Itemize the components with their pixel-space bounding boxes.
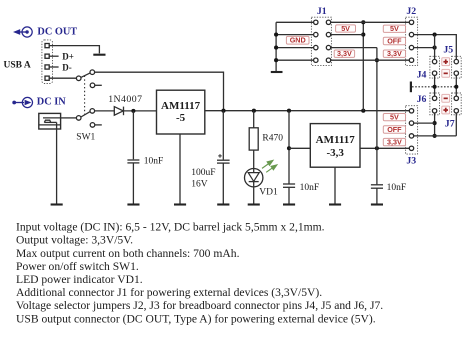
capacitor 100uF 16V bbox=[217, 111, 230, 204]
junction 5V/top bus bbox=[221, 109, 225, 113]
svg-text:Power on/off switch SW1.: Power on/off switch SW1. bbox=[16, 260, 139, 273]
USB pin 2 (D+) bbox=[45, 54, 49, 58]
svg-text:-5: -5 bbox=[176, 112, 186, 124]
ground (J1 bus) bbox=[271, 71, 283, 73]
svg-text:5V: 5V bbox=[390, 24, 399, 33]
wire J5 bottom to rail bbox=[455, 75, 457, 96]
junction J2 pin2 bbox=[433, 33, 437, 37]
wire J6 bottom to J3 pin2 bbox=[434, 113, 436, 136]
wire to U2 input bbox=[289, 147, 310, 149]
connector J2 bbox=[406, 17, 418, 65]
wire 3,3V output bbox=[360, 147, 409, 149]
USB pin 3 (D-) bbox=[45, 65, 49, 69]
svg-text:J2: J2 bbox=[406, 6, 416, 17]
svg-text:5V: 5V bbox=[390, 113, 399, 122]
capacitor 10nF (U2 input) bbox=[283, 184, 295, 204]
junction 3,3V feed row4 bbox=[375, 58, 379, 62]
svg-text:AM1117: AM1117 bbox=[161, 100, 201, 112]
label OFF (J2) bbox=[383, 37, 405, 46]
ground (100uF) bbox=[217, 203, 229, 205]
junction J2 pin3 bbox=[433, 46, 437, 50]
wire jack sleeve to ground bbox=[56, 122, 58, 203]
breadboard ground rail bbox=[411, 82, 457, 93]
svg-text:USB A: USB A bbox=[4, 60, 31, 70]
junction bus row2 bbox=[274, 33, 278, 37]
USB pin 4 bbox=[45, 76, 49, 80]
wire 3,3V feed to J1/J2 bbox=[376, 48, 378, 149]
label OFF (J3) bbox=[383, 125, 405, 134]
svg-text:VD1: VD1 bbox=[259, 188, 278, 198]
junction rail/J5 bbox=[454, 85, 458, 89]
svg-text:10nF: 10nF bbox=[144, 156, 164, 166]
svg-text:J6: J6 bbox=[417, 94, 427, 105]
polarity - (bottom row) bbox=[442, 69, 450, 77]
svg-text:Voltage selector jumpers J2, J: Voltage selector jumpers J2, J3 for brea… bbox=[16, 299, 383, 312]
junction 5V/U2 branch bbox=[287, 109, 291, 113]
description text bbox=[16, 221, 383, 326]
wire switch A to 5V rail (top bus) bbox=[95, 72, 224, 111]
label 5V (J1) bbox=[336, 24, 356, 33]
label GND bbox=[286, 36, 309, 45]
switch gang dotted link bbox=[84, 76, 86, 115]
junction bus row3 bbox=[274, 46, 278, 50]
wire diode to U1 bbox=[124, 110, 157, 112]
svg-text:DC OUT: DC OUT bbox=[37, 27, 77, 38]
wire J2 pin2 to J5 bbox=[414, 35, 457, 60]
svg-text:100uF: 100uF bbox=[191, 168, 215, 178]
wire switch B to diode bbox=[95, 110, 115, 112]
stub D- bbox=[49, 66, 58, 68]
svg-text:GND: GND bbox=[290, 36, 306, 45]
USB pin 1 bbox=[45, 44, 49, 48]
svg-text:D+: D+ bbox=[62, 52, 74, 62]
ground (jack) bbox=[51, 203, 63, 205]
LED VD1 bbox=[245, 169, 263, 204]
junction 3,3V/cap bbox=[375, 146, 379, 150]
svg-text:1N4007: 1N4007 bbox=[108, 94, 142, 105]
wire J3 pin2 bbox=[414, 122, 435, 124]
wire J4 bottom to rail bbox=[434, 75, 436, 96]
wire jack pin to switch bbox=[61, 117, 77, 119]
svg-text:LED power indicator VD1.: LED power indicator VD1. bbox=[16, 273, 143, 286]
DC OUT icon bbox=[13, 27, 32, 37]
regulator U2 AM1117-3,3 bbox=[310, 124, 360, 168]
svg-text:10nF: 10nF bbox=[300, 183, 320, 193]
junction rail/J4 bbox=[433, 85, 437, 89]
DC IN icon bbox=[12, 97, 32, 107]
svg-text:16V: 16V bbox=[191, 179, 208, 189]
ground (mid cap) bbox=[283, 203, 295, 205]
connector J1 bbox=[311, 17, 331, 65]
USB A connector shell bbox=[42, 40, 53, 84]
label 5V (J2) bbox=[383, 24, 405, 33]
junction J3 pin3 link bbox=[433, 134, 437, 138]
U1 ground pin bbox=[179, 134, 181, 204]
svg-text:J7: J7 bbox=[445, 119, 455, 130]
svg-text:J1: J1 bbox=[317, 6, 327, 17]
svg-text:3,3V: 3,3V bbox=[337, 49, 352, 58]
junction 5V/J1 feed bbox=[361, 109, 365, 113]
svg-text:3,3V: 3,3V bbox=[387, 138, 402, 147]
svg-text:Max output current on both cha: Max output current on both channels: 700… bbox=[16, 247, 240, 260]
junction J3 pin2 link bbox=[433, 121, 437, 125]
ground (input cap) bbox=[127, 203, 139, 205]
wires J1 left pins to ground bus bbox=[276, 22, 314, 60]
resistor R470 bbox=[249, 111, 258, 169]
label 3,3V (J1) bbox=[334, 49, 354, 58]
label 3,3V (J3) bbox=[383, 138, 405, 147]
junction 5V feed top bbox=[361, 20, 365, 24]
ground (LED) bbox=[248, 203, 260, 205]
switch SW1 pole A bbox=[76, 70, 101, 88]
polarity + (top row) bbox=[442, 58, 450, 66]
svg-text:DC IN: DC IN bbox=[37, 97, 66, 108]
svg-text:SW1: SW1 bbox=[76, 133, 95, 143]
ground (USB shield) bbox=[93, 54, 105, 56]
switch SW1 pole B bbox=[76, 109, 101, 128]
wire 5V rail bbox=[205, 110, 410, 112]
connector J5 bbox=[452, 56, 462, 78]
junction U2 input bbox=[287, 146, 291, 150]
barrel jack bbox=[39, 113, 61, 129]
wire J2 pin3 bbox=[414, 47, 435, 49]
wire J3 pin3 bbox=[414, 135, 457, 137]
stub D+ bbox=[49, 55, 58, 57]
polarity - (J6 row) bbox=[442, 94, 450, 102]
svg-text:3,3V: 3,3V bbox=[387, 49, 402, 58]
LED light arrows bbox=[262, 160, 277, 172]
ground (U1) bbox=[174, 203, 186, 205]
svg-text:USB output connector (DC OUT,: USB output connector (DC OUT, Type A) fo… bbox=[16, 312, 376, 325]
svg-text:-3,3: -3,3 bbox=[326, 147, 344, 159]
wire J1 row3 bbox=[331, 47, 377, 49]
junction 5V feed row2 bbox=[361, 33, 365, 37]
capacitor 10nF (output) bbox=[371, 148, 383, 203]
wire to J4 top bbox=[434, 35, 436, 60]
wire J7 bottom down bbox=[455, 113, 457, 136]
wire J1 3,3V row bbox=[331, 59, 410, 61]
label 3,3V (J2) bbox=[383, 49, 405, 58]
svg-text:J4: J4 bbox=[417, 70, 427, 81]
U2 ground pin bbox=[334, 167, 336, 203]
ground bus J1 bbox=[275, 22, 277, 71]
svg-text:OFF: OFF bbox=[387, 125, 402, 134]
capacitor 10nF (input) bbox=[127, 111, 139, 204]
junction 5V/R470 bbox=[252, 109, 256, 113]
junction bus row4 bbox=[274, 58, 278, 62]
svg-text:J3: J3 bbox=[406, 156, 416, 167]
polarity + (J7 row) bbox=[442, 106, 450, 114]
wire J1 row2 bbox=[331, 34, 364, 36]
connector J7 bbox=[452, 93, 462, 115]
svg-text:10nF: 10nF bbox=[387, 183, 407, 193]
svg-text:Additional connector J1 for po: Additional connector J1 for powering ext… bbox=[16, 286, 322, 299]
svg-text:J5: J5 bbox=[443, 44, 453, 55]
svg-text:Input voltage (DC IN): 6,5 - 1: Input voltage (DC IN): 6,5 - 12V, DC bar… bbox=[16, 221, 325, 234]
svg-text:5V: 5V bbox=[341, 24, 350, 33]
connector J4 bbox=[430, 56, 440, 78]
diode 1N4007 bbox=[114, 107, 123, 116]
svg-text:AM1117: AM1117 bbox=[316, 134, 356, 146]
label 5V (J3) bbox=[383, 113, 405, 122]
svg-text:R470: R470 bbox=[262, 133, 283, 143]
wire USB pin1 to ground bbox=[49, 46, 99, 54]
wire 5V to U2 branch bbox=[288, 111, 290, 184]
wire USB pin4 to switch bbox=[49, 77, 76, 79]
wire J1 5V row bbox=[331, 21, 410, 23]
connector J6 bbox=[430, 93, 440, 115]
regulator U1 AM1117-5 bbox=[157, 90, 205, 134]
connector J3 bbox=[406, 106, 418, 154]
svg-text:OFF: OFF bbox=[387, 37, 402, 46]
svg-text:D-: D- bbox=[62, 62, 72, 72]
ground (U2) bbox=[329, 203, 341, 205]
svg-text:Output voltage: 3,3V/5V.: Output voltage: 3,3V/5V. bbox=[16, 234, 133, 247]
junction diode/cap bbox=[131, 109, 135, 113]
wire 5V feed to J1/J2 bbox=[362, 22, 364, 110]
ground (output cap) bbox=[371, 203, 383, 205]
